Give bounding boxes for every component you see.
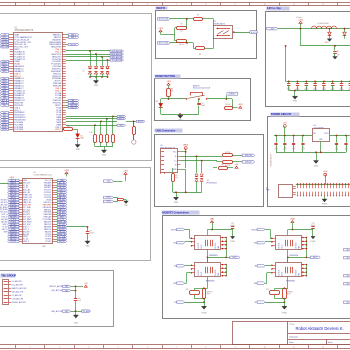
svg-text:C19: C19	[231, 223, 234, 225]
usb data label flags	[242, 154, 255, 157]
3v3 input flag	[267, 27, 278, 30]
svg-text:GR3: GR3	[254, 243, 257, 245]
svg-text:USB_DP: USB_DP	[245, 162, 253, 164]
svg-text:USB_DP: USB_DP	[70, 107, 78, 109]
resistor R6	[187, 42, 193, 44]
svg-text:G2 S2: G2 S2	[281, 245, 283, 249]
svg-text:R20: R20	[266, 289, 269, 291]
svg-text:USB_2: USB_2	[71, 37, 76, 39]
shunt network	[207, 277, 209, 288]
svg-text:Company:: Company:	[289, 337, 299, 339]
section box MOSFET Connections	[163, 216, 350, 319]
svg-text:IO_D3: IO_D3	[2, 226, 7, 228]
phase node rail	[306, 238, 308, 258]
svg-text:RESET BUTTON: RESET BUTTON	[156, 75, 176, 78]
usb bottom bus and gnd	[173, 192, 202, 194]
svg-text:MOS3: MOS3	[2, 129, 7, 131]
svg-text:GND: GND	[174, 202, 179, 204]
svg-text:R6: R6	[199, 54, 201, 56]
pullup resistor array R10-R13	[94, 124, 96, 126]
svg-text:C13: C13	[314, 87, 317, 89]
svg-text:U5: U5	[160, 145, 162, 147]
svg-text:RESET1: RESET1	[193, 85, 200, 87]
power header gnd	[324, 196, 326, 199]
power header pins	[296, 184, 350, 186]
svg-text:4: 4	[88, 347, 89, 349]
svg-text:JTDI: JTDI	[107, 181, 111, 183]
svg-text:SHUNT1: SHUNT1	[287, 292, 293, 294]
resistor R4	[177, 40, 187, 43]
svg-text:C6: C6	[284, 147, 286, 149]
svg-text:GND: GND	[74, 323, 79, 325]
bypass cap C19 of group	[292, 229, 313, 231]
tim connector J3	[3, 280, 9, 305]
svg-text:VBUS: VBUS	[183, 144, 189, 146]
svg-text:DC2_ADC#FB: DC2_ADC#FB	[12, 284, 24, 287]
U1 swd wires	[66, 116, 117, 118]
low side mosfet ic Q2	[276, 263, 302, 277]
svg-text:GND: GND	[102, 155, 107, 157]
mid rail between ics	[287, 250, 289, 263]
svg-text:MOSFET Connections: MOSFET Connections	[163, 212, 190, 215]
svg-text:GND: GND	[94, 85, 99, 87]
svg-text:SHUNT1: SHUNT1	[207, 292, 213, 294]
svg-text:+12V: +12V	[323, 171, 328, 173]
svg-text:STM32F103RCT6: STM32F103RCT6	[15, 30, 34, 32]
svg-text:3.3V to chip: 3.3V to chip	[267, 7, 282, 10]
LED ground	[77, 138, 79, 145]
svg-text:8: 8	[205, 347, 206, 349]
esd array T4	[196, 156, 198, 173]
svg-text:T4: T4	[207, 180, 209, 182]
svg-text:C15: C15	[331, 87, 334, 89]
svg-text:EXTI_2: EXTI_2	[2, 217, 7, 219]
U1 left net label flags	[9, 34, 10, 36]
svg-text:FDMS8333L: FDMS8333L	[209, 255, 218, 257]
net flag BOOT0_SEL	[158, 18, 171, 21]
svg-text:PC9/T8: PC9/T8	[45, 241, 51, 243]
svg-text:SRV1: SRV1	[2, 71, 6, 73]
diodes on rail	[328, 32, 332, 35]
svg-text:C2: C2	[336, 147, 338, 149]
decoupling cap bank C10-C17	[286, 81, 350, 83]
svg-text:R9 10k: R9 10k	[225, 104, 230, 106]
svg-text:SERVO1_ADC#FB: SERVO1_ADC#FB	[12, 287, 27, 290]
svg-text:D5: D5	[82, 71, 84, 73]
svg-text:10uF: 10uF	[345, 149, 348, 151]
svg-text:T1_ADC#FB: T1_ADC#FB	[12, 280, 22, 283]
swd label flags	[117, 115, 126, 117]
svg-text:5: 5	[118, 347, 119, 349]
svg-text:SPI_CS0: SPI_CS0	[0, 204, 7, 206]
svg-text:GR4: GR4	[254, 283, 257, 285]
frame top border lines	[0, 2, 350, 4]
svg-text:6: 6	[147, 347, 148, 349]
svg-text:3: 3	[59, 347, 60, 349]
svg-text:TIM1#N: TIM1#N	[171, 229, 178, 231]
svg-text:6: 6	[147, 4, 148, 6]
svg-text:G1 S1 D1: G1 S1 D1	[279, 270, 281, 276]
svg-text:C5: C5	[275, 147, 277, 149]
reset bottom bus	[161, 114, 199, 116]
svg-text:100nF: 100nF	[201, 105, 205, 107]
tim ground	[75, 311, 77, 315]
svg-text:VIN: VIN	[313, 133, 316, 135]
section box POWER CIRCUIT	[268, 117, 350, 207]
svg-text:7: 7	[176, 4, 177, 6]
low side mosfet ic Q2	[195, 263, 221, 277]
low side right rail	[225, 264, 227, 266]
TVS diode array D5-D8 on adc nets	[90, 51, 92, 66]
phase node rail	[226, 238, 228, 258]
svg-text:GR1: GR1	[173, 243, 176, 245]
capacitor C17	[198, 98, 200, 100]
svg-text:R25: R25	[67, 126, 70, 128]
svg-text:Robot Aktüatör Devresi K.: Robot Aktüatör Devresi K.	[296, 326, 344, 331]
svg-text:PGND: PGND	[201, 312, 207, 314]
svg-text:D+: D+	[174, 160, 176, 162]
svg-text:G1 S1 D1: G1 S1 D1	[198, 270, 200, 276]
svg-text:10k: 10k	[171, 91, 174, 93]
svg-text:IS1: IS1	[174, 302, 177, 304]
jtag cluster resistor to gnd	[104, 196, 114, 199]
output caps	[336, 135, 338, 137]
svg-text:10k: 10k	[180, 31, 183, 33]
svg-text:C14: C14	[323, 87, 326, 89]
svg-text:7: 7	[176, 347, 177, 349]
svg-text:+3V3: +3V3	[270, 28, 274, 30]
cap BC 1uF	[334, 46, 336, 51]
cap bank ground	[294, 91, 296, 97]
svg-text:CUR_ADC#FB: CUR_ADC#FB	[12, 298, 24, 301]
svg-text:GR2: GR2	[173, 283, 176, 285]
decoupling cap C9 near U2	[67, 226, 88, 228]
svg-text:U6: U6	[266, 188, 268, 190]
tvs ground bus wire	[90, 76, 108, 78]
title block divider	[287, 322, 289, 345]
svg-text:PGND: PGND	[311, 241, 317, 243]
svg-text:R20: R20	[186, 289, 189, 291]
svg-text:PGND: PGND	[322, 203, 328, 205]
svg-text:OU#: OU#	[346, 302, 349, 304]
svg-text:10uF: 10uF	[275, 149, 278, 151]
section box RESET BUTTON	[155, 79, 251, 121]
shunt network	[287, 277, 289, 288]
svg-text:C12: C12	[305, 87, 308, 89]
svg-text:4: 4	[88, 4, 89, 6]
power rails	[274, 135, 312, 137]
svg-text:C9: C9	[90, 231, 92, 233]
resistor R9	[232, 99, 234, 108]
svg-text:NRST: NRST	[3, 224, 7, 226]
section box 3V3 to chip	[266, 12, 350, 107]
svg-text:C10: C10	[287, 87, 290, 89]
svg-text:CONN_HEADER_25x2: CONN_HEADER_25x2	[34, 174, 53, 177]
svg-text:MCT2: MCT2	[313, 257, 317, 259]
svg-text:R5: R5	[197, 14, 199, 16]
svg-text:C16: C16	[340, 87, 343, 89]
svg-text:BOOT0: BOOT0	[138, 121, 144, 123]
resistor R6 usb to 5v	[213, 167, 217, 169]
ground of resistor array	[104, 147, 106, 151]
svg-text:OU#: OU#	[346, 275, 349, 277]
svg-text:GND_2: GND_2	[2, 229, 7, 231]
svg-text:R4 10k: R4 10k	[179, 44, 184, 46]
svg-text:EN_MT1: EN_MT1	[1, 199, 7, 201]
U1 right pins and pin names	[62, 34, 66, 36]
svg-text:U4: U4	[314, 125, 316, 127]
header U2	[23, 179, 53, 244]
ground of tvs array	[96, 77, 98, 81]
svg-text:D2 S3 D3: D2 S3 D3	[296, 243, 298, 249]
svg-text:EXTI_1: EXTI_1	[2, 214, 7, 216]
status LED D2 with resistor R25	[62, 129, 64, 131]
svg-text:MCT1: MCT1	[233, 257, 237, 259]
svg-text:IN1: IN1	[174, 266, 177, 268]
svg-text:D4: D4	[156, 101, 158, 103]
svg-text:BOOT0_SEL: BOOT0_SEL	[159, 19, 169, 21]
usb data wires + resistors R1 R2	[180, 156, 222, 158]
svg-text:12: 12	[322, 4, 324, 6]
U1 right boot1 flag	[66, 44, 68, 46]
svg-text:T2_ADC#FB: T2_ADC#FB	[12, 294, 22, 297]
resistor R8 pullup	[168, 85, 170, 88]
input caps	[275, 135, 277, 137]
resistor array ground bus	[95, 146, 113, 148]
svg-text:JTDO: JTDO	[106, 197, 111, 199]
svg-text:R8: R8	[171, 89, 173, 91]
svg-text:R10: R10	[90, 132, 93, 134]
svg-text:G1 S1 D1: G1 S1 D1	[279, 242, 281, 248]
svg-text:1uF: 1uF	[337, 55, 340, 57]
svg-text:GND: GND	[314, 165, 319, 167]
svg-text:8: 8	[205, 4, 206, 6]
right edge clipped label flags	[344, 249, 350, 251]
svg-text:3: 3	[59, 4, 60, 6]
svg-text:SPI_MISO: SPI_MISO	[0, 207, 8, 209]
svg-text:POWER-INPUT: POWER-INPUT	[271, 153, 273, 167]
region box around MCU	[0, 14, 152, 161]
svg-text:KS-01Q-01 6x4.5mm-W: KS-01Q-01 6x4.5mm-W	[193, 88, 211, 90]
svg-text:C17: C17	[201, 103, 204, 105]
svg-text:10: 10	[264, 4, 266, 6]
svg-text:10uF: 10uF	[302, 149, 305, 151]
svg-text:GND: GND	[293, 101, 298, 103]
section box BOOT0	[156, 11, 257, 59]
svg-text:L1 BLM18 600R: L1 BLM18 600R	[317, 23, 329, 25]
U1 right xtal/usb label flags	[66, 100, 68, 102]
section box USB Connection	[155, 135, 264, 207]
U1 left pins and pin names	[10, 34, 14, 36]
svg-text:C19: C19	[312, 223, 315, 225]
svg-text:Sheet:: Sheet:	[328, 341, 334, 344]
svg-text:POWER CIRCUIT: POWER CIRCUIT	[271, 113, 292, 116]
power ground symbol	[316, 152, 318, 160]
svg-text:D2 S3 D3: D2 S3 D3	[215, 270, 217, 276]
svg-text:D2 S3 D3: D2 S3 D3	[296, 270, 298, 276]
svg-text:GND_2: GND_2	[23, 241, 29, 243]
svg-text:SWCLK: SWCLK	[118, 119, 125, 121]
svg-text:10uF: 10uF	[292, 149, 295, 151]
svg-text:G2 S2: G2 S2	[201, 245, 203, 249]
reset gnd	[180, 114, 182, 115]
svg-text:5: 5	[118, 4, 119, 6]
high side mosfet ic Q1	[276, 236, 302, 250]
svg-text:GND: GND	[86, 245, 91, 247]
svg-text:VDD_ADC#FB: VDD_ADC#FB	[12, 291, 24, 294]
svg-text:BOOT1: BOOT1	[71, 44, 77, 46]
LED D2 symbol	[76, 134, 80, 138]
svg-text:100nF: 100nF	[90, 233, 94, 235]
svg-text:BOOT0: BOOT0	[157, 7, 166, 10]
parallel shunt resistor	[270, 291, 280, 295]
svg-text:PGND: PGND	[282, 312, 288, 314]
svg-text:R3: R3	[180, 23, 182, 25]
svg-text:G1 S1 D1: G1 S1 D1	[198, 242, 200, 248]
svg-text:nRESET: nRESET	[229, 94, 237, 96]
svg-text:VDD_5: VDD_5	[55, 129, 61, 131]
svg-text:2: 2	[30, 347, 31, 349]
pulldown resistor R14	[133, 121, 135, 127]
svg-text:SPI_MOSI: SPI_MOSI	[0, 209, 8, 211]
svg-text:SPI_SCK: SPI_SCK	[0, 212, 8, 214]
pullup resistor R7 on vcc	[196, 155, 198, 157]
boot ladder wires	[174, 28, 176, 35]
svg-text:R#W: R#W	[207, 293, 211, 295]
svg-text:VOUT: VOUT	[324, 133, 328, 135]
svg-text:TIM_GROUP: TIM_GROUP	[1, 274, 16, 277]
svg-text:IN2: IN2	[254, 266, 257, 268]
svg-text:OSC_OUT: OSC_OUT	[1, 47, 9, 49]
svg-text:Date:: Date:	[289, 341, 294, 344]
svg-text:C3: C3	[345, 147, 347, 149]
svg-text:GND: GND	[178, 120, 183, 122]
svg-text:10nF: 10nF	[78, 300, 81, 302]
resistor R5	[187, 18, 193, 20]
title block outer frame	[233, 322, 350, 345]
shunt pgnd	[204, 299, 206, 307]
svg-text:INTRNL_ADC#FB: INTRNL_ADC#FB	[12, 301, 27, 304]
microcontroller U1 STM32F103RCT6	[14, 33, 63, 132]
shunt pgnd	[284, 299, 286, 307]
svg-text:PC7/T8: PC7/T8	[11, 241, 16, 243]
power gnd bus	[276, 152, 346, 154]
usb shield pins	[160, 172, 162, 174]
svg-text:PC9/TIM8: PC9/TIM8	[14, 129, 23, 131]
svg-text:TIM2#N: TIM2#N	[251, 229, 258, 231]
svg-text:12: 12	[322, 347, 324, 349]
bypass cap pgnd	[311, 236, 315, 239]
svg-text:GND: GND	[325, 42, 330, 44]
svg-text:IN1: IN1	[3, 105, 6, 107]
boot0 output flag	[233, 32, 250, 34]
tim cap	[74, 298, 77, 300]
svg-text:10uF: 10uF	[283, 149, 286, 151]
svg-text:IS2: IS2	[254, 302, 257, 304]
svg-text:G2 S2: G2 S2	[281, 272, 283, 276]
testpoint circle	[132, 140, 136, 144]
parallel shunt resistor	[190, 291, 200, 295]
svg-text:TITLE:: TITLE:	[289, 324, 295, 326]
svg-text:10: 10	[264, 347, 266, 349]
svg-text:C8: C8	[302, 147, 304, 149]
svg-text:10uF: 10uF	[335, 149, 338, 151]
svg-text:2: 2	[30, 4, 31, 6]
nreset flag	[226, 92, 238, 95]
U1 right side top usb label flags	[66, 34, 68, 36]
svg-text:11: 11	[293, 4, 295, 6]
svg-text:USB Connection: USB Connection	[156, 129, 176, 132]
svg-text:BOOT1_SEL: BOOT1_SEL	[159, 43, 169, 45]
mid rail between ics	[207, 250, 209, 263]
frame column ticks and numbers	[15, 3, 17, 6]
section box TIM_CH pins	[0, 271, 114, 327]
svg-text:PGND: PGND	[230, 241, 236, 243]
second rail wire	[300, 29, 302, 46]
svg-text:C20: C20	[78, 298, 81, 300]
U2 right pins with label flags	[52, 180, 55, 182]
svg-text:R3: R3	[175, 175, 177, 177]
svg-text:EN_MT2: EN_MT2	[1, 202, 7, 204]
svg-text:BOOT0: BOOT0	[251, 32, 257, 34]
cap bank gnd bus	[289, 90, 350, 92]
jtag cluster label and supply	[104, 180, 114, 183]
svg-text:11: 11	[293, 347, 295, 349]
svg-text:D2 S3 D3: D2 S3 D3	[215, 243, 217, 249]
svg-text:U3: U3	[214, 21, 216, 23]
frame bottom border lines	[0, 344, 350, 346]
svg-text:G2 S2: G2 S2	[201, 272, 203, 276]
phase output flag	[306, 257, 310, 259]
svg-text:9: 9	[235, 347, 236, 349]
svg-text:9: 9	[235, 4, 236, 6]
svg-text:FDMS8333L: FDMS8333L	[289, 255, 298, 257]
svg-text:C11: C11	[296, 87, 299, 89]
high side mosfet ic Q1	[195, 236, 221, 250]
svg-text:R#W: R#W	[287, 293, 291, 295]
phase output flag	[226, 257, 230, 259]
bypass cap pgnd	[231, 236, 235, 239]
svg-text:C7: C7	[293, 147, 295, 149]
reset led D4	[161, 98, 169, 100]
svg-text:OU#: OU#	[346, 257, 349, 259]
svg-text:D2: D2	[81, 136, 83, 138]
svg-text:GND: GND	[75, 149, 80, 151]
svg-text:R6: R6	[222, 164, 224, 166]
boot0 net flag near swd	[126, 121, 137, 123]
svg-text:PRTR5V0U2X: PRTR5V0U2X	[207, 182, 218, 184]
svg-text:USB_DM: USB_DM	[245, 155, 253, 157]
U2 left pins with label flags	[19, 180, 22, 182]
net flag BOOT1_SEL	[158, 42, 171, 45]
svg-text:OU#: OU#	[346, 249, 349, 251]
svg-text:OU#: OU#	[346, 283, 349, 285]
svg-text:SWG3E-2W-R6: SWG3E-2W-R6	[214, 23, 225, 25]
region box around header U2	[0, 168, 151, 261]
bypass cap C19 of group	[212, 229, 233, 231]
low side right rail	[306, 264, 308, 266]
U1 adc net wires to right labels	[66, 50, 110, 52]
